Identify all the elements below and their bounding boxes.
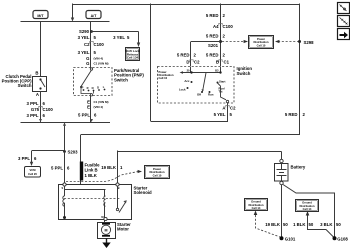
- svg-text:G75: G75: [31, 107, 40, 112]
- svg-text:C2: C2: [84, 42, 90, 47]
- svg-text:5 PPL: 5 PPL: [51, 165, 63, 170]
- svg-text:M: M: [105, 228, 108, 232]
- svg-text:Lock: Lock: [179, 87, 186, 91]
- svg-text:S: S: [62, 186, 64, 190]
- svg-text:50: 50: [283, 222, 288, 227]
- svg-text:Battery: Battery: [291, 165, 306, 170]
- svg-text:C100: C100: [223, 24, 234, 29]
- svg-text:Cell 14: Cell 14: [252, 206, 261, 210]
- svg-text:G101: G101: [285, 236, 296, 241]
- svg-text:A4: A4: [213, 24, 219, 29]
- svg-text:A: A: [36, 92, 39, 97]
- svg-text:E: E: [87, 104, 90, 109]
- svg-text:Cell 10: Cell 10: [257, 43, 266, 47]
- svg-text:5 RED: 5 RED: [206, 33, 219, 38]
- svg-text:C1: C1: [224, 59, 230, 64]
- svg-text:3 YEL: 3 YEL: [113, 35, 125, 40]
- svg-text:Cell 10: Cell 10: [153, 173, 162, 177]
- svg-text:S298: S298: [304, 40, 315, 45]
- svg-text:C2: C2: [194, 59, 200, 64]
- svg-text:5 RED: 5 RED: [206, 52, 219, 57]
- svg-text:5 RED: 5 RED: [206, 13, 219, 18]
- svg-text:Start: Start: [219, 79, 225, 83]
- svg-text:5 PPL: 5 PPL: [78, 112, 90, 117]
- svg-text:3 PPL: 3 PPL: [18, 156, 30, 161]
- svg-text:D: D: [186, 59, 189, 64]
- svg-text:M/T: M/T: [37, 14, 44, 18]
- svg-text:C2: C2: [230, 105, 236, 110]
- svg-text:S203: S203: [68, 149, 79, 154]
- svg-text:1 BLK: 1 BLK: [85, 173, 98, 178]
- svg-text:3 YEL: 3 YEL: [78, 50, 90, 55]
- svg-text:Cell 14: Cell 14: [303, 207, 312, 211]
- svg-text:Cell 20: Cell 20: [28, 172, 37, 176]
- svg-text:19 BLK: 19 BLK: [265, 222, 281, 227]
- svg-text:R: R: [87, 86, 89, 90]
- svg-text:D: D: [97, 85, 99, 89]
- svg-text:19 BLK: 19 BLK: [101, 165, 117, 170]
- svg-text:VCM: VCM: [30, 168, 37, 172]
- svg-text:G108: G108: [337, 237, 348, 242]
- svg-text:B3: B3: [215, 68, 219, 72]
- svg-text:5 RED: 5 RED: [177, 52, 190, 57]
- svg-text:5 YEL: 5 YEL: [214, 112, 226, 117]
- svg-text:Link B: Link B: [85, 167, 98, 172]
- svg-text:Acc: Acc: [184, 79, 190, 83]
- svg-text:(VIN 4): (VIN 4): [94, 56, 104, 60]
- svg-text:Run: Run: [208, 93, 214, 97]
- svg-text:M: M: [101, 215, 103, 219]
- svg-text:1 BLK: 1 BLK: [293, 222, 306, 227]
- svg-text:(VIN 4): (VIN 4): [94, 105, 104, 109]
- svg-text:N: N: [92, 86, 94, 90]
- svg-text:Cell 134: Cell 134: [127, 56, 139, 60]
- svg-text:Switch: Switch: [114, 77, 128, 82]
- svg-text:Switch: Switch: [18, 83, 32, 88]
- svg-text:C100: C100: [43, 107, 54, 112]
- svg-text:C1 (VIN M): C1 (VIN M): [94, 100, 109, 104]
- svg-text:3 YEL: 3 YEL: [78, 35, 90, 40]
- svg-text:S290: S290: [79, 29, 90, 34]
- svg-text:50: 50: [336, 222, 341, 227]
- svg-text:3 PPL: 3 PPL: [27, 101, 39, 106]
- svg-text:Cell 10: Cell 10: [159, 76, 168, 80]
- svg-text:A: A: [222, 105, 225, 110]
- svg-text:C1 (VIN M): C1 (VIN M): [94, 61, 109, 65]
- svg-text:5 RED: 5 RED: [285, 112, 298, 117]
- svg-text:B: B: [35, 70, 38, 75]
- svg-text:Off: Off: [197, 93, 201, 97]
- svg-text:S201: S201: [208, 43, 219, 48]
- svg-text:A/T: A/T: [91, 14, 98, 18]
- svg-text:Solenoid: Solenoid: [134, 190, 153, 195]
- svg-text:3 PPL: 3 PPL: [27, 113, 39, 118]
- svg-text:Motor: Motor: [117, 226, 129, 231]
- svg-text:C100: C100: [94, 42, 105, 47]
- svg-text:3 BLK: 3 BLK: [320, 222, 333, 227]
- svg-text:P: P: [82, 85, 84, 89]
- svg-text:Switch: Switch: [237, 71, 251, 76]
- svg-text:50: 50: [309, 222, 314, 227]
